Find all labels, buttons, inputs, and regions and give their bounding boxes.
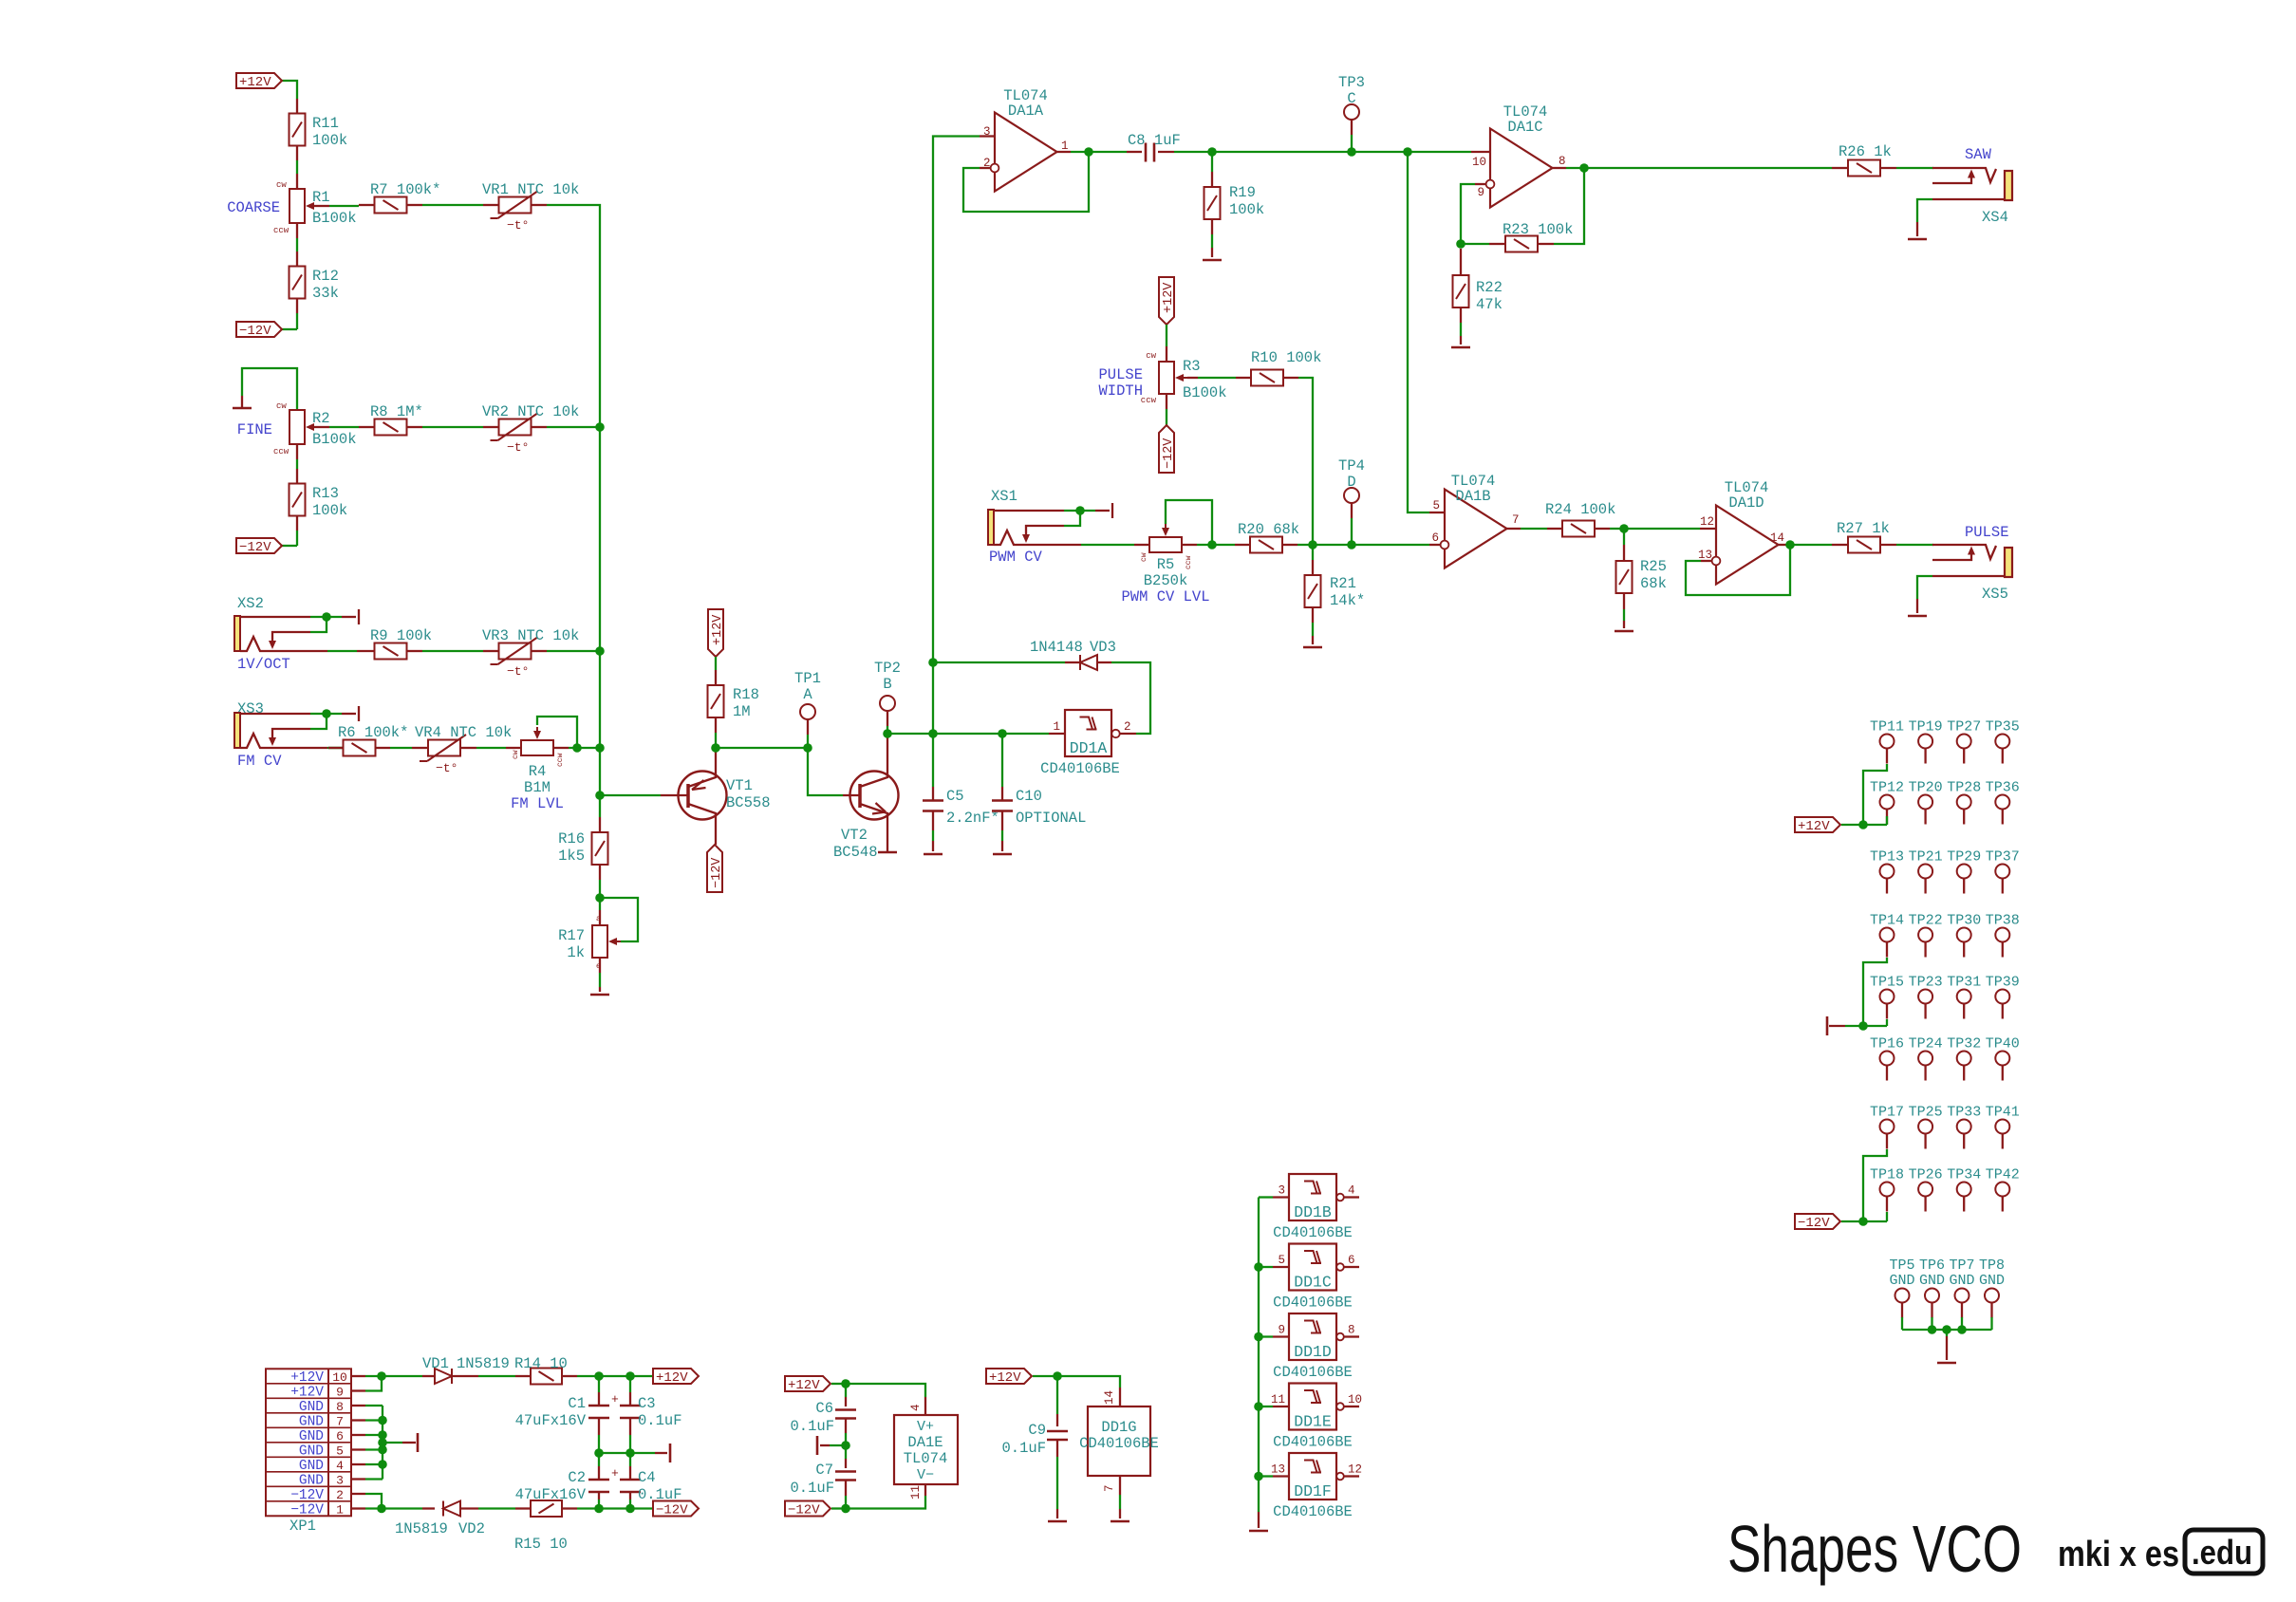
audio jack XS1 [988,510,994,545]
svg-text:GND: GND [1919,1273,1945,1289]
op-amp DA1A [995,113,1057,192]
wire R3 wiper to R10 [1187,377,1198,379]
diode VD1 1N5819 [435,1369,452,1384]
svg-text:VT2: VT2 [841,827,868,844]
svg-text:R1: R1 [312,189,330,206]
svg-text:C4: C4 [638,1469,656,1486]
svg-text:TP39: TP39 [1986,975,2020,991]
test point TP25 [1918,1120,1932,1134]
junction drop to DA1B [1403,147,1412,157]
svg-text:3: 3 [983,125,991,139]
schmitt inverter DD1C [1289,1244,1336,1291]
junction C9 top [1053,1371,1062,1381]
wire XS2 to R9 [357,650,374,652]
junction TP4 [1347,540,1356,550]
wire R5 wiper loop [1166,500,1212,545]
svg-text:100k: 100k [312,132,347,149]
wire R10 down to PWM node [1283,377,1298,379]
svg-text:R8 1M*: R8 1M* [370,403,423,420]
resistor R18 [708,685,724,717]
junction TP7 gnd [1957,1325,1967,1334]
svg-text:.edu: .edu [2192,1533,2252,1572]
svg-text:WIDTH: WIDTH [1098,382,1143,400]
resistor R10 [1251,370,1283,386]
svg-text:cw: cw [276,401,287,411]
svg-text:TP33: TP33 [1947,1105,1981,1121]
power flag +12V (coarse top) [236,73,282,88]
resistor R13 [289,484,306,516]
wire TP11 to +12V junction [1863,764,1887,825]
wire R26 to XS4 [1880,167,1896,169]
power flag -12V (TP grid) [1795,1214,1840,1229]
svg-text:a: a [596,915,601,923]
ground DD1G [1111,1520,1129,1523]
power flag -12V (VT1) [707,845,722,892]
svg-text:R16: R16 [558,830,585,848]
svg-text:−t°: −t° [507,218,529,233]
wire -12V to DA1E [831,1507,846,1509]
capacitor C4 0.1uF [629,1453,631,1466]
svg-text:R25: R25 [1640,558,1667,575]
schmitt inverter DD1E [1289,1384,1336,1430]
test point TP41 [1995,1120,2009,1134]
svg-text:Shapes VCO: Shapes VCO [1727,1512,2022,1586]
power flag +12V (R18) [708,609,723,657]
svg-text:GND: GND [299,1400,324,1415]
test point TP36 [1995,795,2009,810]
svg-text:XS5: XS5 [1982,586,2008,603]
resistor R26 [1848,160,1880,177]
svg-text:+12V: +12V [989,1370,1021,1386]
resistor R12 [289,267,306,299]
svg-text:0.1uF: 0.1uF [1001,1440,1046,1457]
svg-text:PULSE: PULSE [1098,366,1143,383]
svg-text:TP2: TP2 [874,660,901,677]
wire XP1 gnd pins [365,1405,383,1406]
wire XS3 to R6 [328,747,357,749]
wire R3 to -12V [1166,394,1167,409]
junction node A left [711,743,720,753]
svg-text:CD40106BE: CD40106BE [1079,1435,1159,1452]
svg-text:SAW: SAW [1965,146,1992,163]
svg-text:DD1C: DD1C [1294,1274,1332,1292]
svg-text:DD1D: DD1D [1294,1343,1332,1361]
wire node C right [1352,151,1408,153]
svg-text:TP26: TP26 [1909,1167,1943,1183]
svg-text:COARSE: COARSE [227,199,280,216]
test point TP18 [1880,1183,1895,1197]
wire TP17 to -12V junction [1863,1149,1887,1221]
svg-text:cw: cw [512,750,520,759]
wire R4 wiper loop [537,717,577,748]
resistor R23 [1461,243,1489,245]
svg-text:GND: GND [1979,1273,2005,1289]
svg-text:TP5: TP5 [1889,1257,1914,1274]
test point TP21 [1918,865,1932,879]
svg-text:1N5819: 1N5819 [395,1520,448,1537]
ground C10 [993,853,1012,856]
junction R19 tap [1207,147,1217,157]
wire R1 wiper to R7 [314,205,329,207]
wire R8 to VR2 [407,426,422,428]
test point TP20 [1918,795,1932,810]
wire TP3 stem [1351,135,1353,152]
svg-text:9: 9 [1477,186,1484,199]
svg-text:R7 100k*: R7 100k* [370,181,440,198]
svg-text:R18: R18 [733,686,759,703]
potentiometer R4 FM LVL [521,740,553,755]
svg-text:B250k: B250k [1144,572,1188,589]
wire +12V to DA1E [831,1383,846,1385]
svg-text:TP7: TP7 [1949,1257,1974,1274]
junction TP3 [1347,147,1356,157]
svg-text:1N4148: 1N4148 [1030,639,1083,656]
svg-text:9: 9 [1278,1324,1285,1337]
test point TP32 [1957,1052,1971,1066]
transistor VT1 BC558 [679,772,727,820]
svg-text:C5: C5 [946,788,964,805]
svg-text:4: 4 [336,1459,344,1473]
svg-text:R9 100k: R9 100k [370,627,432,644]
svg-text:TP16: TP16 [1870,1036,1904,1052]
capacitor C9 [1056,1376,1058,1414]
wire +12V rail to VD1 [382,1375,422,1377]
svg-text:FINE: FINE [237,421,272,438]
wire TP18 stem [1886,1212,1888,1221]
junction node B C5 [928,729,938,738]
svg-text:8: 8 [1559,155,1566,168]
svg-text:C: C [1347,90,1355,107]
svg-text:R3: R3 [1183,358,1201,375]
junction node A right [803,743,812,753]
op-amp DA1D [1716,506,1779,585]
svg-text:TL074: TL074 [904,1450,948,1467]
svg-text:D: D [1347,474,1355,491]
svg-text:DA1E: DA1E [907,1434,943,1451]
wire gnd to TP15 [1863,1025,1887,1027]
wire R12 to -12V [296,298,298,313]
ground R17 [590,994,609,997]
test point TP40 [1995,1052,2009,1066]
inverter power DD1G [1088,1406,1150,1476]
wire +12V to R18 [715,657,717,670]
svg-text:cw: cw [276,180,287,190]
wire TP1 stem [807,735,809,748]
svg-text:VD3: VD3 [1090,639,1116,656]
svg-text:DA1D: DA1D [1728,494,1764,512]
svg-text:TP4: TP4 [1338,457,1365,475]
svg-text:TP21: TP21 [1909,849,1943,866]
svg-text:5: 5 [1278,1254,1285,1267]
wire R24 to junction [1595,528,1610,530]
svg-text:FM LVL: FM LVL [511,795,564,812]
svg-text:0.1uF: 0.1uF [790,1480,834,1497]
capacitor C8 [1145,143,1148,162]
svg-text:+12V: +12V [788,1378,820,1393]
wire DA1A output [1057,151,1072,153]
svg-text:BC548: BC548 [833,844,878,861]
junction C7 bottom [841,1504,850,1514]
svg-text:1k5: 1k5 [558,848,585,865]
power flag -12V (fine bottom) [236,538,282,553]
op-amp power DA1E [894,1415,958,1484]
junction C3 top [625,1371,635,1381]
junction TP gnd mid [1942,1325,1951,1334]
ground DD1 bus [1249,1530,1268,1533]
svg-text:V−: V− [917,1467,934,1483]
test point TP14 [1880,928,1895,942]
svg-text:cw: cw [1146,351,1156,361]
svg-text:R2: R2 [312,410,330,427]
diode VD2 1N5819 [443,1501,460,1517]
resistor R11 [289,114,306,146]
svg-text:7: 7 [336,1415,344,1429]
junction XP1 -12V [377,1504,386,1514]
svg-text:4: 4 [909,1404,923,1411]
svg-text:GND: GND [299,1415,324,1430]
svg-text:14: 14 [1770,531,1784,545]
diode VD3 1N4148 [933,661,1065,663]
audio jack XS2 [234,616,240,651]
potentiometer R5 PWM CV LVL [1149,537,1182,552]
wire R2 to R13 [296,444,298,459]
audio jack XS4 [2005,171,2012,200]
thermistor VR2 NTC [499,419,532,436]
wire node C to DA1C [1408,151,1471,153]
svg-text:1: 1 [1053,720,1060,734]
svg-text:TP37: TP37 [1986,849,2020,866]
wire DA1D feedback [1701,560,1712,562]
power flag +12V (R3) [1159,277,1174,325]
wire -12V rail to VD2 [382,1507,422,1509]
svg-text:0.1uF: 0.1uF [790,1418,834,1435]
svg-text:TP6: TP6 [1919,1257,1945,1274]
junction C6 top [841,1379,850,1388]
svg-text:4: 4 [1348,1184,1355,1198]
junction R21 tap [1308,540,1317,550]
capacitor C6 [845,1384,847,1397]
svg-text:GND: GND [1889,1273,1914,1289]
svg-text:PWM CV LVL: PWM CV LVL [1121,588,1209,605]
svg-text:13: 13 [1271,1463,1285,1477]
svg-text:47k: 47k [1476,296,1503,313]
svg-text:R13: R13 [312,485,339,502]
ground R19 [1203,259,1222,262]
junction C1 bottom [594,1448,604,1458]
power flag -12V (coarse bottom) [236,322,282,337]
svg-text:CD40106BE: CD40106BE [1273,1295,1353,1312]
svg-text:TP20: TP20 [1909,780,1943,796]
svg-text:−12V: −12V [1162,438,1176,469]
test point TP30 [1957,928,1971,942]
svg-text:TP35: TP35 [1986,719,2020,736]
svg-text:R4: R4 [529,763,547,780]
test point TP33 [1957,1120,1971,1134]
resistor R21 [1312,545,1314,560]
potentiometer R2 FINE [289,410,305,444]
svg-text:B100k: B100k [1183,384,1227,401]
junction R24 out [1619,524,1629,533]
potentiometer R1 COARSE [289,189,305,223]
resistor R6 [344,740,376,756]
schmitt inverter DD1D [1289,1313,1336,1360]
resistor R22 [1460,249,1462,275]
test point TP4 [1344,488,1359,503]
svg-text:14: 14 [1103,1390,1116,1405]
test point TP23 [1918,990,1932,1004]
wire -12V to TP18 [1841,1220,1887,1222]
svg-text:C1: C1 [568,1395,586,1412]
svg-text:TP23: TP23 [1909,975,1943,991]
wire R11 to R1 [296,145,298,160]
resistor R24 [1562,521,1595,537]
svg-text:10: 10 [332,1370,347,1385]
wire SAW net [1584,167,1832,169]
svg-text:0.1uF: 0.1uF [638,1412,682,1429]
svg-text:VR3 NTC 10k: VR3 NTC 10k [482,627,579,644]
svg-text:+12V: +12V [656,1370,688,1386]
svg-text:OPTIONAL: OPTIONAL [1016,810,1086,827]
wire R16 to R17 [599,865,601,880]
svg-text:VR1 NTC 10k: VR1 NTC 10k [482,181,579,198]
svg-text:5: 5 [336,1444,344,1459]
wire PULSE net [1790,544,1832,546]
svg-text:cw: cw [1140,552,1148,562]
wire R7 to VR1 [407,204,422,206]
svg-text:6: 6 [336,1429,344,1444]
audio jack XS3 [234,713,240,748]
ground tick DA1E mid [830,1444,846,1446]
test point TP22 [1918,928,1932,942]
svg-text:TP3: TP3 [1338,74,1365,91]
svg-text:VR4 NTC 10k: VR4 NTC 10k [415,724,512,741]
wire VR4 to R4 [461,747,476,749]
svg-text:CD40106BE: CD40106BE [1273,1434,1353,1451]
ground R25 [1615,630,1633,633]
ground R21 [1303,646,1322,649]
junction XP1 +12V [377,1371,386,1381]
wire bus to VT1 base [600,794,661,796]
svg-text:VD1: VD1 [422,1355,449,1372]
svg-text:1N5819: 1N5819 [457,1355,510,1372]
junction DA1C out [1579,163,1589,173]
svg-text:C9: C9 [1028,1422,1046,1439]
svg-text:VR2 NTC 10k: VR2 NTC 10k [482,403,579,420]
svg-text:−12V: −12V [239,540,271,555]
power flag +12V (PSU out) [653,1369,699,1384]
junction gnd TP [1858,1021,1868,1031]
wire DA1D out [1779,544,1791,546]
potentiometer R17 [592,925,607,958]
svg-text:TP29: TP29 [1947,849,1981,866]
power flag +12V (DA1E) [785,1376,831,1391]
wire VR1 to bus [532,204,547,206]
resistor R14 [531,1369,562,1385]
schmitt inverter DD1A [1065,710,1111,756]
svg-text:GND: GND [299,1474,324,1489]
svg-text:R20 68k: R20 68k [1238,521,1299,538]
svg-text:DD1A: DD1A [1070,739,1108,757]
svg-text:R22: R22 [1476,279,1503,296]
svg-text:R12: R12 [312,268,339,285]
resistor R25 [1623,529,1625,545]
svg-text:+12V: +12V [1162,282,1176,313]
wire XP1 pin1 [365,1507,382,1509]
potentiometer R3 PULSE WIDTH [1159,362,1174,394]
svg-text:VT1: VT1 [726,777,753,794]
junction XP1 gnd [378,1430,387,1440]
svg-text:TP13: TP13 [1870,849,1904,866]
capacitor C5 [932,734,934,787]
svg-text:TP18: TP18 [1870,1167,1904,1183]
wire R17 wiper loop [600,898,638,941]
svg-text:TP17: TP17 [1870,1105,1904,1121]
svg-text:+12V: +12V [290,1386,324,1401]
svg-text:33k: 33k [312,285,339,302]
capacitor C10 [1001,734,1003,787]
svg-text:DA1C: DA1C [1507,119,1542,136]
svg-text:TP38: TP38 [1986,913,2020,929]
svg-text:6: 6 [1348,1254,1355,1267]
svg-text:CD40106BE: CD40106BE [1273,1503,1353,1520]
svg-text:R14 10: R14 10 [514,1355,568,1372]
svg-text:R19: R19 [1229,184,1256,201]
svg-text:R26 1k: R26 1k [1839,143,1892,160]
svg-text:8: 8 [336,1400,344,1414]
wire node B up to DA1A [933,137,980,735]
junction R23/R22 [1456,239,1465,249]
test point TP28 [1957,795,1971,810]
svg-text:GND: GND [299,1429,324,1444]
svg-text:ccw: ccw [556,753,565,767]
wire main bus down [599,427,601,817]
svg-text:2: 2 [1124,720,1131,734]
wire R1 to R12 [296,223,298,238]
svg-text:TP12: TP12 [1870,780,1904,796]
svg-text:DD1E: DD1E [1294,1413,1332,1431]
wire DA1C output [1553,167,1567,169]
wire R13 to -12V [296,515,298,531]
power flag -12V (DA1E) [785,1501,831,1517]
wire VR2 to bus [532,426,547,428]
gnd tick FINE top [242,368,297,410]
junction DD1F input [1254,1472,1263,1481]
svg-text:+12V: +12V [290,1370,324,1386]
wire C8 to node C [1174,151,1212,153]
wire node D to DA1B [1352,544,1429,546]
svg-text:TP27: TP27 [1947,719,1981,736]
svg-text:ccw: ccw [273,226,289,235]
svg-text:+: + [611,1466,619,1481]
svg-text:R15 10: R15 10 [514,1536,568,1553]
test point TP26 [1918,1183,1932,1197]
svg-text:CD40106BE: CD40106BE [1273,1364,1353,1381]
svg-text:3: 3 [1278,1184,1285,1198]
test point TP13 [1880,865,1895,879]
svg-text:GND: GND [1949,1273,1974,1289]
svg-text:10: 10 [1472,156,1486,169]
test point TP19 [1918,735,1932,749]
thermistor VR4 NTC [428,740,460,756]
svg-text:TP15: TP15 [1870,975,1904,991]
svg-text:−12V: −12V [656,1503,688,1518]
svg-text:8: 8 [1348,1324,1355,1337]
svg-text:6: 6 [1431,531,1439,545]
wire to C8 [1089,151,1127,153]
test point TP35 [1995,735,2009,749]
capacitor C3 0.1uF [629,1376,631,1392]
svg-text:C7: C7 [815,1462,833,1479]
